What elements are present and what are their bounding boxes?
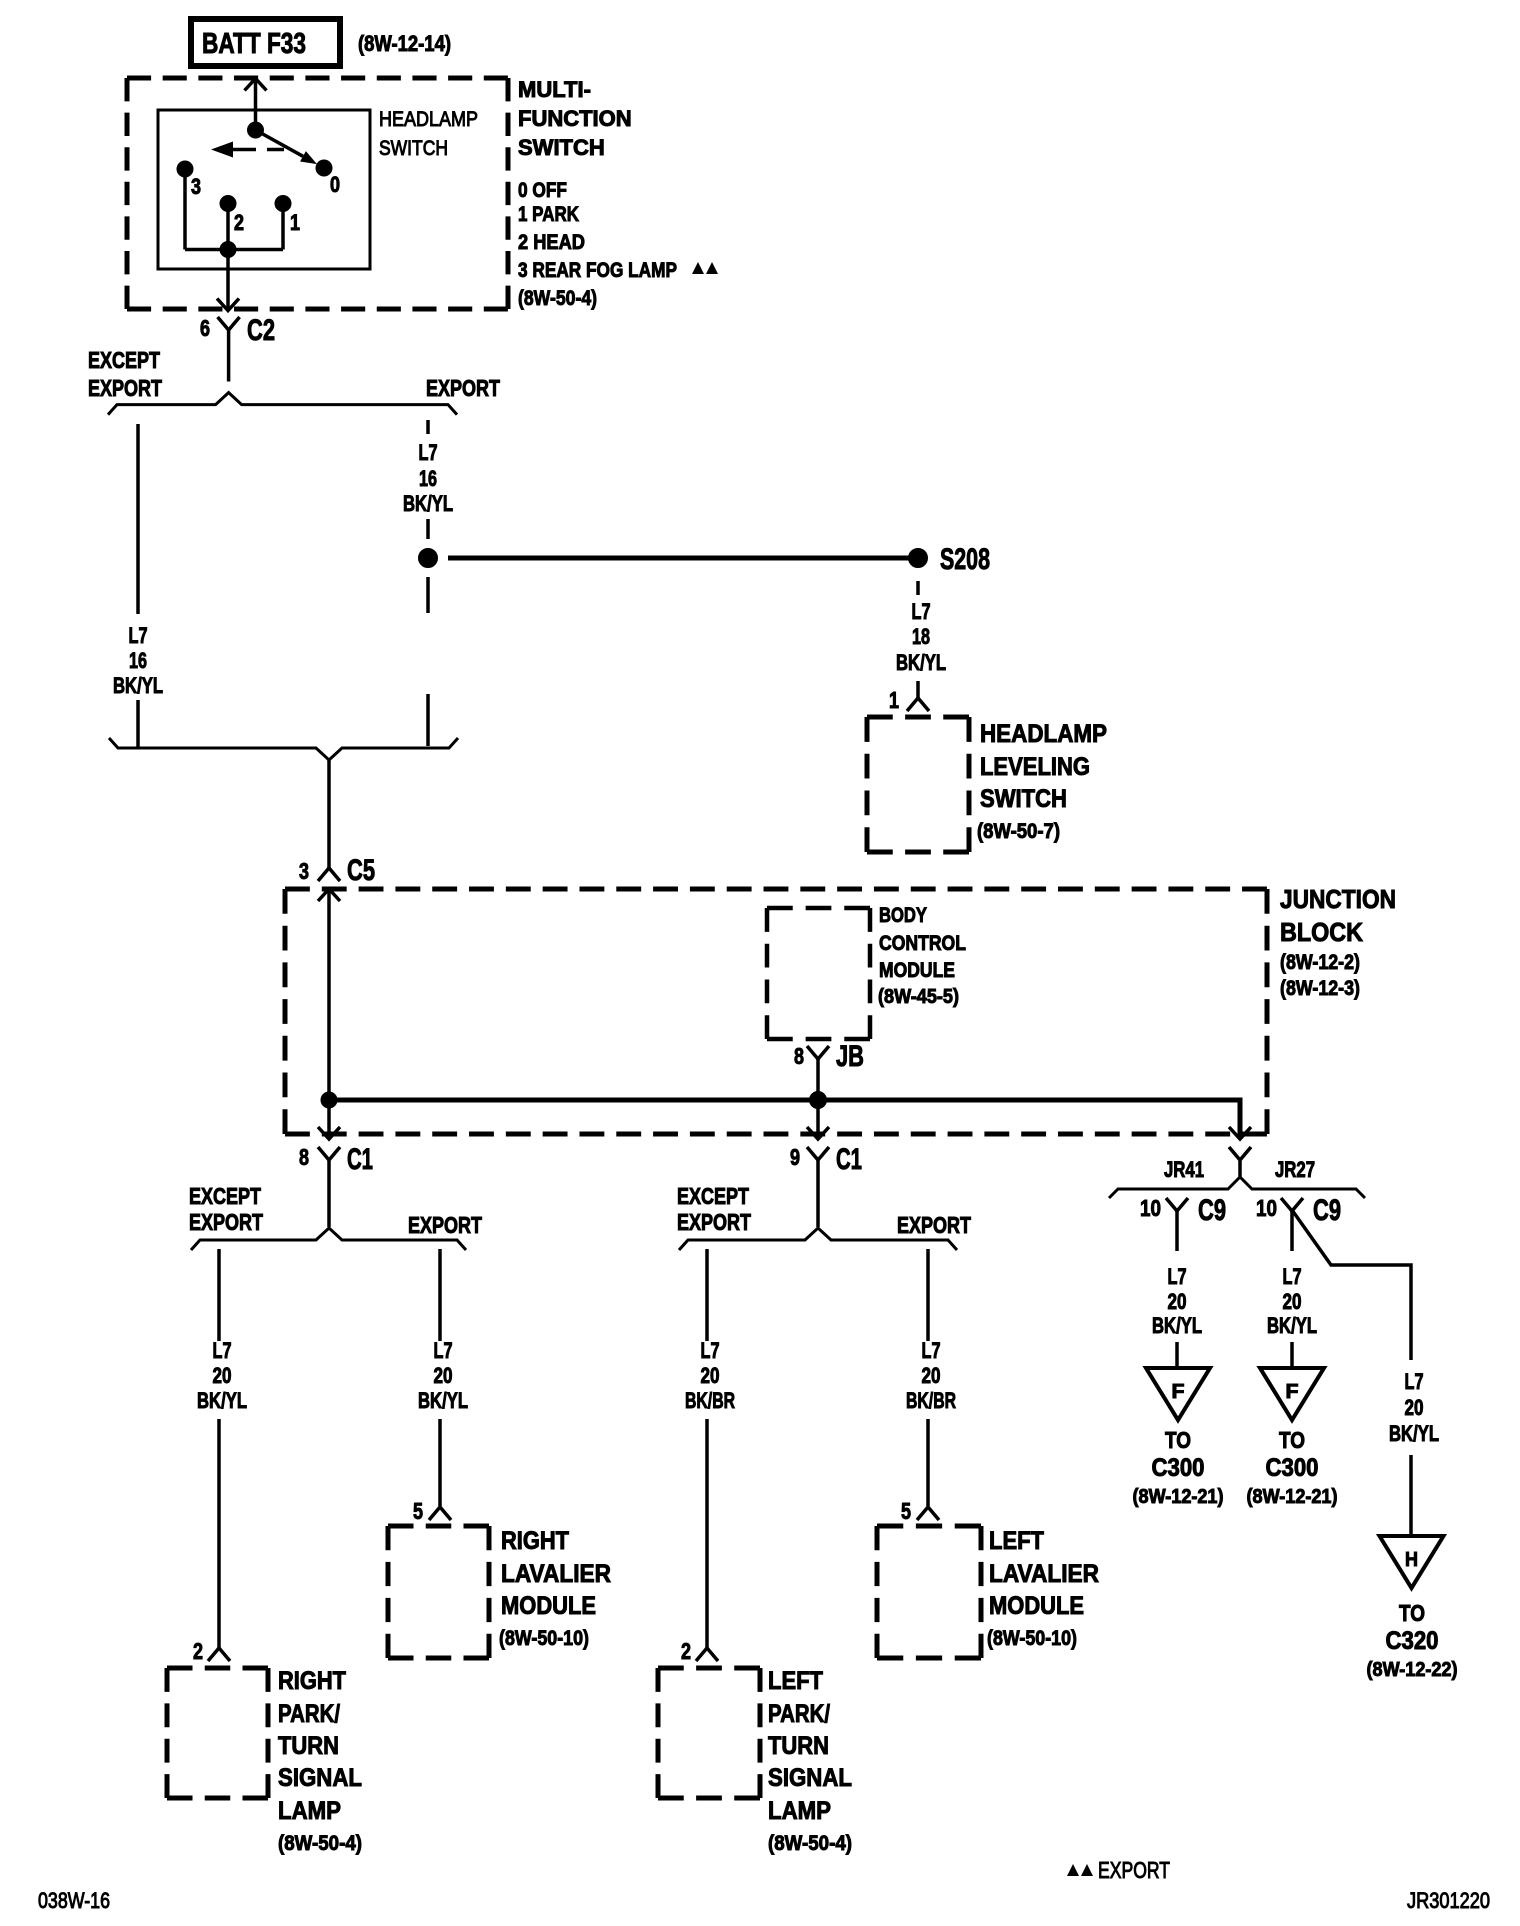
svg-text:C300: C300 xyxy=(1266,1454,1319,1482)
svg-text:(8W-45-5): (8W-45-5) xyxy=(878,986,959,1008)
svg-text:BK/BR: BK/BR xyxy=(906,1388,956,1413)
label TO C300 (8W-12-21) xyxy=(1247,1427,1338,1508)
svg-text:038W-16: 038W-16 xyxy=(38,1888,110,1913)
svg-text:(8W-12-21): (8W-12-21) xyxy=(1247,1486,1338,1508)
wire label L7 20 BK/BR xyxy=(685,1338,735,1413)
svg-text:HEADLAMP: HEADLAMP xyxy=(980,720,1107,748)
svg-text:2: 2 xyxy=(193,1638,203,1664)
svg-text:JR27: JR27 xyxy=(1275,1157,1315,1182)
svg-text:TURN: TURN xyxy=(278,1732,339,1760)
connector C1 pin 8 xyxy=(299,1143,373,1176)
wire label L7 20 BK/BR xyxy=(906,1338,956,1413)
svg-text:20: 20 xyxy=(434,1363,453,1388)
svg-text:(8W-12-22): (8W-12-22) xyxy=(1367,1659,1458,1681)
label JUNCTION BLOCK xyxy=(1280,884,1396,1000)
svg-text:L7: L7 xyxy=(434,1338,453,1363)
double bracket JR41/JR27 xyxy=(1109,1177,1365,1198)
svg-text:3: 3 xyxy=(191,174,201,199)
svg-text:MODULE: MODULE xyxy=(989,1592,1084,1620)
svg-text:BK/YL: BK/YL xyxy=(113,673,163,698)
contact 0 xyxy=(316,160,340,197)
svg-text:BK/YL: BK/YL xyxy=(896,650,946,675)
svg-text:L7: L7 xyxy=(419,440,438,465)
svg-text:EXCEPT: EXCEPT xyxy=(189,1183,261,1209)
svg-text:2 HEAD: 2 HEAD xyxy=(518,231,585,254)
merge bracket above C5 xyxy=(109,738,458,760)
svg-text:MULTI-: MULTI- xyxy=(518,77,591,102)
label MULTI-FUNCTION SWITCH xyxy=(518,77,632,160)
svg-text:FUNCTION: FUNCTION xyxy=(518,106,632,131)
svg-text:BK/YL: BK/YL xyxy=(403,491,453,516)
svg-text:MODULE: MODULE xyxy=(879,959,955,982)
connector pin 2 left park lamp xyxy=(681,1638,718,1664)
wire contact 2 to common xyxy=(226,204,230,250)
svg-text:20: 20 xyxy=(1405,1395,1424,1420)
svg-text:C9: C9 xyxy=(1313,1194,1341,1227)
svg-text:JUNCTION: JUNCTION xyxy=(1280,884,1396,914)
svg-text:(8W-12-21): (8W-12-21) xyxy=(1133,1486,1224,1508)
left lavalier module dashed box xyxy=(877,1526,981,1658)
connector C5 pin 3 xyxy=(299,854,375,887)
svg-text:20: 20 xyxy=(1283,1289,1302,1314)
connector JB pin 8 xyxy=(794,1040,864,1073)
body control module dashed box xyxy=(767,908,870,1039)
svg-text:L7: L7 xyxy=(213,1338,232,1363)
wire label L7 20 BK/YL xyxy=(197,1338,247,1413)
label EXCEPT EXPORT xyxy=(189,1183,263,1235)
svg-text:PARK/: PARK/ xyxy=(278,1700,340,1728)
headlamp leveling switch dashed box xyxy=(867,717,969,852)
svg-text:0: 0 xyxy=(330,172,340,197)
wire diagonal from C9 to C320 branch xyxy=(1292,1210,1411,1360)
svg-text:BK/YL: BK/YL xyxy=(1152,1313,1202,1338)
junction block dashed box xyxy=(285,889,1267,1134)
svg-text:C9: C9 xyxy=(1198,1194,1226,1227)
label BODY CONTROL MODULE xyxy=(878,904,966,1008)
svg-text:(8W-12-14): (8W-12-14) xyxy=(358,31,451,56)
svg-text:EXPORT: EXPORT xyxy=(1098,1857,1170,1883)
svg-text:EXCEPT: EXCEPT xyxy=(677,1183,749,1209)
wire to F symbol xyxy=(1175,1342,1179,1367)
svg-text:LAVALIER: LAVALIER xyxy=(989,1560,1099,1588)
switch pivot contact xyxy=(248,122,264,138)
wire contact 3 to common xyxy=(185,169,228,250)
svg-text:PARK/: PARK/ xyxy=(768,1700,830,1728)
split bracket under C2 xyxy=(108,393,457,415)
svg-text:EXPORT: EXPORT xyxy=(897,1212,971,1238)
bus drop right with arrow xyxy=(1229,1127,1251,1139)
label BATT F33 xyxy=(202,28,306,60)
svg-text:(8W-12-2): (8W-12-2) xyxy=(1280,951,1360,974)
svg-text:EXPORT: EXPORT xyxy=(408,1212,482,1238)
wire L7 20 BK/BR to left park lamp xyxy=(705,1249,709,1648)
label LEFT LAVALIER MODULE xyxy=(987,1527,1099,1650)
svg-text:H: H xyxy=(1405,1549,1418,1571)
headlamp switch inner box xyxy=(158,110,370,269)
svg-text:5: 5 xyxy=(413,1498,423,1524)
svg-text:L7: L7 xyxy=(1283,1264,1302,1289)
connector JR feed xyxy=(1229,1147,1251,1177)
svg-text:(8W-12-3): (8W-12-3) xyxy=(1280,977,1360,1000)
svg-text:2: 2 xyxy=(681,1638,691,1664)
svg-text:BLOCK: BLOCK xyxy=(1280,917,1363,947)
off-page symbol H xyxy=(1380,1536,1444,1588)
svg-text:6: 6 xyxy=(200,315,210,341)
junction dot on export branch xyxy=(419,549,438,568)
label TO C320 (8W-12-22) xyxy=(1367,1600,1458,1681)
label EXPORT xyxy=(897,1212,971,1238)
svg-text:SWITCH: SWITCH xyxy=(980,785,1067,813)
wire L7 16 BK/YL except-export branch xyxy=(136,424,140,748)
wire JR41 drop xyxy=(1175,1222,1179,1251)
svg-text:JR41: JR41 xyxy=(1164,1157,1204,1182)
svg-text:20: 20 xyxy=(922,1363,941,1388)
label RIGHT PARK/TURN SIGNAL LAMP xyxy=(278,1667,362,1855)
svg-text:BK/YL: BK/YL xyxy=(1389,1421,1439,1446)
wire label L7 20 BK/YL xyxy=(1152,1264,1202,1338)
label LEFT PARK/TURN SIGNAL LAMP xyxy=(768,1667,852,1855)
svg-text:SIGNAL: SIGNAL xyxy=(278,1764,362,1792)
svg-text:9: 9 xyxy=(790,1144,800,1170)
wire C1-9 down xyxy=(816,1171,820,1227)
svg-text:JR301220: JR301220 xyxy=(1407,1888,1490,1913)
svg-text:C2: C2 xyxy=(247,314,275,347)
svg-text:20: 20 xyxy=(701,1363,720,1388)
connector C9 pin 10 right xyxy=(1256,1194,1341,1227)
wire pivot to BATT with up arrow xyxy=(245,79,267,131)
svg-text:EXPORT: EXPORT xyxy=(189,1209,263,1235)
wire switch output with down arrow xyxy=(217,250,239,311)
sheet number 038W-16 xyxy=(38,1888,110,1913)
svg-text:EXCEPT: EXCEPT xyxy=(88,347,160,373)
label EXCEPT EXPORT xyxy=(88,347,162,401)
svg-text:L7: L7 xyxy=(129,623,148,648)
wire L7 20 BK/YL to right lavalier xyxy=(438,1249,442,1507)
svg-text:L7: L7 xyxy=(1405,1369,1424,1394)
contact 2 xyxy=(220,196,244,236)
svg-text:TO: TO xyxy=(1399,1600,1425,1626)
svg-text:BATT F33: BATT F33 xyxy=(202,28,306,60)
connector pin 2 right park lamp xyxy=(193,1638,230,1664)
svg-text:10: 10 xyxy=(1256,1195,1277,1221)
svg-text:1: 1 xyxy=(889,687,899,713)
svg-text:LAVALIER: LAVALIER xyxy=(501,1560,611,1588)
wire C1-8 down xyxy=(327,1171,331,1227)
svg-text:1: 1 xyxy=(290,210,300,235)
label RIGHT LAVALIER MODULE xyxy=(499,1527,611,1650)
wire C2 down xyxy=(227,341,231,382)
svg-text:SIGNAL: SIGNAL xyxy=(768,1764,852,1792)
fuse BATT F33 box xyxy=(191,19,340,66)
svg-text:(8W-50-7): (8W-50-7) xyxy=(977,820,1060,843)
svg-text:C300: C300 xyxy=(1152,1454,1205,1482)
svg-text:TURN: TURN xyxy=(768,1732,829,1760)
connector C9 pin 10 left xyxy=(1140,1194,1226,1227)
junction block internal bus xyxy=(329,1100,1240,1139)
bus drop to C1 pin 9 with arrow xyxy=(807,1100,829,1139)
contact 1 xyxy=(275,196,300,236)
bus drop to C1 pin 8 with arrow xyxy=(318,1100,340,1139)
left park/turn signal lamp dashed box xyxy=(658,1668,760,1798)
svg-text:EXPORT: EXPORT xyxy=(88,375,162,401)
bus junction dot left xyxy=(321,1092,337,1108)
reference (8W-12-14) xyxy=(358,31,451,56)
svg-text:2: 2 xyxy=(234,210,244,235)
wire JB to bus xyxy=(816,1070,820,1100)
label EXCEPT EXPORT xyxy=(677,1183,751,1235)
svg-text:(8W-50-4): (8W-50-4) xyxy=(278,1832,362,1855)
svg-text:LEVELING: LEVELING xyxy=(980,753,1090,781)
wire label L7 20 BK/YL xyxy=(1389,1369,1439,1446)
wire contact 1 to common xyxy=(228,204,283,250)
wire S208 to headlamp leveling switch xyxy=(916,581,920,595)
svg-text:(8W-50-4): (8W-50-4) xyxy=(768,1832,852,1855)
right lavalier module dashed box xyxy=(388,1526,489,1658)
svg-text:LEFT: LEFT xyxy=(989,1527,1044,1555)
common junction xyxy=(220,242,236,258)
svg-text:S208: S208 xyxy=(940,543,990,576)
label TO C300 (8W-12-21) xyxy=(1133,1427,1224,1508)
export marker triangles xyxy=(692,262,718,274)
svg-text:LAMP: LAMP xyxy=(768,1797,831,1825)
label EXPORT xyxy=(426,375,500,401)
label EXPORT legend xyxy=(1098,1857,1170,1883)
connector pin 5 right lavalier xyxy=(413,1498,451,1524)
label HEADLAMP SWITCH xyxy=(379,108,478,160)
svg-text:BODY: BODY xyxy=(879,904,927,927)
export legend triangles xyxy=(1067,1864,1093,1876)
rotation direction arrow xyxy=(211,142,284,158)
wire bracket to C5 xyxy=(327,760,331,868)
svg-text:C1: C1 xyxy=(836,1143,862,1176)
svg-text:BK/YL: BK/YL xyxy=(197,1388,247,1413)
connector pin 1 headlamp leveling switch xyxy=(889,681,929,713)
wire C5 into junction block with up arrow xyxy=(318,889,340,1100)
right park/turn signal lamp dashed box xyxy=(167,1668,268,1798)
svg-text:L7: L7 xyxy=(701,1338,720,1363)
multi-function switch dashed box xyxy=(127,78,508,309)
label JR41 JR27 xyxy=(1164,1157,1315,1182)
svg-text:C5: C5 xyxy=(347,854,375,887)
wire label L7 20 BK/YL xyxy=(1267,1264,1317,1338)
wire label L7 16 BK/YL export xyxy=(403,440,453,516)
svg-text:HEADLAMP: HEADLAMP xyxy=(379,108,478,131)
svg-text:TO: TO xyxy=(1279,1427,1305,1453)
connector C1 pin 9 xyxy=(790,1143,862,1176)
split bracket under C1-9 xyxy=(679,1228,957,1250)
svg-text:(8W-50-10): (8W-50-10) xyxy=(499,1627,589,1650)
svg-text:EXPORT: EXPORT xyxy=(426,375,500,401)
svg-text:CONTROL: CONTROL xyxy=(879,932,966,955)
svg-text:16: 16 xyxy=(129,648,147,673)
svg-text:EXPORT: EXPORT xyxy=(677,1209,751,1235)
wire L7 20 BK/BR to left lavalier xyxy=(926,1249,930,1507)
svg-text:20: 20 xyxy=(213,1363,232,1388)
splice S208 wire xyxy=(448,556,909,561)
svg-text:MODULE: MODULE xyxy=(501,1592,596,1620)
switch position legend xyxy=(518,179,677,282)
wire JR27 drop xyxy=(1290,1222,1294,1251)
svg-text:BK/YL: BK/YL xyxy=(1267,1313,1317,1338)
connector pin 5 left lavalier xyxy=(901,1498,939,1524)
svg-text:20: 20 xyxy=(1168,1289,1187,1314)
label HEADLAMP LEVELING SWITCH xyxy=(977,720,1107,843)
reference (8W-50-4) xyxy=(518,287,597,310)
split bracket under C1-8 xyxy=(191,1228,466,1250)
svg-text:LEFT: LEFT xyxy=(768,1667,823,1695)
svg-text:(8W-50-4): (8W-50-4) xyxy=(518,287,597,310)
svg-text:8: 8 xyxy=(299,1144,309,1170)
svg-text:L7: L7 xyxy=(912,599,931,624)
wire L7 20 BK/YL to right park lamp xyxy=(217,1249,221,1648)
svg-text:SWITCH: SWITCH xyxy=(379,137,448,160)
wire to H symbol xyxy=(1409,1455,1413,1535)
svg-text:5: 5 xyxy=(901,1498,911,1524)
svg-text:18: 18 xyxy=(912,624,930,649)
svg-text:1 PARK: 1 PARK xyxy=(518,203,579,226)
drawing number JR301220 xyxy=(1407,1888,1490,1913)
svg-text:SWITCH: SWITCH xyxy=(518,135,605,160)
wire label L7 18 BK/YL xyxy=(896,599,946,675)
svg-text:3 REAR FOG LAMP: 3 REAR FOG LAMP xyxy=(518,259,677,282)
switch wiper arm to position 0 xyxy=(256,130,318,164)
wire label L7 16 BK/YL xyxy=(113,623,163,698)
wire to F symbol xyxy=(1290,1342,1294,1367)
svg-text:10: 10 xyxy=(1140,1195,1161,1221)
off-page symbol F left xyxy=(1146,1368,1210,1420)
svg-text:3: 3 xyxy=(299,858,309,884)
svg-text:LAMP: LAMP xyxy=(278,1797,341,1825)
svg-text:F: F xyxy=(1286,1381,1299,1403)
wire L7 16 BK/YL export branch (dashed) xyxy=(426,420,430,746)
svg-text:BK/BR: BK/BR xyxy=(685,1388,735,1413)
svg-text:(8W-50-10): (8W-50-10) xyxy=(987,1627,1077,1650)
svg-text:RIGHT: RIGHT xyxy=(278,1667,346,1695)
svg-text:C1: C1 xyxy=(347,1143,373,1176)
svg-text:L7: L7 xyxy=(922,1338,941,1363)
svg-text:F: F xyxy=(1172,1381,1185,1403)
bus junction dot middle xyxy=(810,1092,827,1109)
splice S208 dot and label xyxy=(909,543,991,576)
svg-text:BK/YL: BK/YL xyxy=(418,1388,468,1413)
svg-text:JB: JB xyxy=(836,1040,864,1073)
svg-text:8: 8 xyxy=(794,1043,804,1069)
svg-text:0 OFF: 0 OFF xyxy=(518,179,567,202)
label EXPORT xyxy=(408,1212,482,1238)
contact 3 xyxy=(177,161,201,199)
off-page symbol F right xyxy=(1260,1368,1324,1420)
connector C2 pin 6 xyxy=(200,314,275,347)
svg-text:C320: C320 xyxy=(1386,1627,1439,1655)
svg-text:TO: TO xyxy=(1165,1427,1191,1453)
svg-text:L7: L7 xyxy=(1168,1264,1187,1289)
wire label L7 20 BK/YL xyxy=(418,1338,468,1413)
svg-text:RIGHT: RIGHT xyxy=(501,1527,569,1555)
svg-text:16: 16 xyxy=(419,466,437,491)
